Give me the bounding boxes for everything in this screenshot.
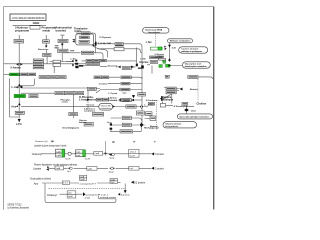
svg-text:2-Oxobutan: 2-Oxobutan [146, 99, 159, 102]
svg-text:Octanoyl: Octanoyl [32, 153, 42, 156]
svg-text:Vitamin B6: Vitamin B6 [101, 104, 112, 107]
svg-text:LplA: LplA [88, 167, 93, 170]
svg-text:oxobutano: oxobutano [84, 110, 96, 113]
svg-text:LipM: LipM [68, 196, 73, 198]
svg-text:LipM: LipM [56, 155, 61, 157]
svg-text:NAD: NAD [55, 47, 60, 50]
svg-text:Choline: Choline [197, 101, 207, 105]
svg-text:LipZ: LipZ [76, 155, 81, 157]
svg-text:LplA: LplA [56, 167, 61, 170]
svg-text:S-protein: S-protein [121, 193, 131, 196]
svg-text:1.8.1.4: 1.8.1.4 [130, 151, 137, 153]
svg-text:serine: serine [62, 102, 69, 104]
svg-text:Chol: Chol [191, 110, 196, 112]
svg-text:lipoyl: lipoyl [109, 171, 114, 173]
svg-text:Various (n): Various (n) [35, 140, 48, 143]
svg-text:Methane metabolism: Methane metabolism [170, 40, 191, 43]
svg-text:LipM: LipM [80, 179, 85, 181]
svg-text:transfer): transfer) [56, 28, 67, 32]
svg-text:L-Cystat: L-Cystat [109, 92, 118, 95]
svg-text:5-Amino: 5-Amino [11, 65, 22, 69]
svg-text:folate: folate [75, 29, 82, 33]
svg-text:L-Thr: L-Thr [145, 105, 154, 107]
svg-text:aldehyde: aldehyde [162, 97, 174, 101]
svg-text:5,10: 5,10 [61, 35, 65, 37]
svg-text:LipB: LipB [56, 151, 61, 153]
svg-text:propanoate: propanoate [15, 28, 30, 32]
svg-text:L-Asp: L-Asp [12, 85, 20, 89]
svg-text:(c) Kanehisa Laboratories: (c) Kanehisa Laboratories [8, 206, 30, 209]
svg-text:biosynthesis: biosynthesis [148, 31, 161, 34]
svg-text:GLYCINE, SERINE AND THREONINE: GLYCINE, SERINE AND THREONINE METABOLISM [12, 16, 45, 20]
svg-text:THF: THF [70, 50, 75, 52]
svg-text:+ 2 THF: + 2 THF [155, 57, 164, 59]
svg-text:lipoyl: lipoyl [110, 157, 115, 159]
svg-text:pathways in prokaryotes: pathways in prokaryotes [181, 50, 203, 53]
svg-text:3-oxobut: 3-oxobut [108, 99, 118, 102]
svg-text:amide: amide [85, 197, 91, 199]
svg-text:Dimethylglycine: Dimethylglycine [63, 127, 81, 130]
svg-text:dicarboxylate metabolism: dicarboxylate metabolism [185, 65, 207, 68]
svg-text:4-Trimethylammonio: 4-Trimethylammonio [174, 105, 195, 108]
svg-text:G protein: G protein [155, 167, 165, 170]
svg-text:Hse: Hse [12, 104, 17, 108]
svg-text:Sarcosine: Sarcosine [108, 64, 119, 67]
svg-text:L-Ser: L-Ser [71, 58, 77, 60]
svg-text:L-Ser: L-Ser [146, 42, 152, 44]
svg-text:Octanoylation (others): Octanoylation (others) [30, 177, 51, 180]
svg-text:Lipoate: Lipoate [33, 168, 42, 171]
svg-text:H protein: H protein [155, 153, 165, 156]
svg-text:Lipoylation of glycine cleavag: Lipoylation of glycine cleavage system H… [34, 144, 67, 148]
svg-text:octanoyl transfer: octanoyl transfer [100, 196, 116, 199]
svg-text:Glycerophospholipid metabolism: Glycerophospholipid metabolism [179, 115, 209, 118]
svg-text:Glycine: Glycine [139, 60, 149, 64]
svg-text:Betaine: Betaine [150, 125, 159, 128]
svg-text:metabolism: metabolism [101, 107, 112, 110]
svg-text:betaine: betaine [79, 121, 87, 124]
svg-text:E2 protein: E2 protein [134, 181, 146, 184]
svg-text:L-Thr: L-Thr [16, 124, 22, 126]
svg-text:Apo: Apo [34, 182, 39, 185]
svg-text:[ sub. ]: [ sub. ] [101, 194, 108, 196]
svg-text:L-homoserine: L-homoserine [79, 97, 97, 101]
svg-text:Sarcosine: Sarcosine [38, 49, 49, 51]
svg-text:Sarcosi: Sarcosi [86, 105, 94, 107]
svg-text:metab: metab [43, 28, 51, 32]
svg-text:Betaine: Betaine [190, 88, 199, 91]
svg-text:GcvH: GcvH [85, 158, 91, 160]
svg-text:Amin: Amin [107, 121, 112, 124]
svg-text:Creatine: Creatine [99, 83, 109, 86]
svg-text:5,10-Me-THF: 5,10-Me-THF [98, 43, 112, 45]
svg-text:GcvH: GcvH [65, 158, 71, 160]
svg-text:octanoyl-GcvH: octanoyl-GcvH [80, 182, 95, 185]
svg-text:biosynthesis: biosynthesis [165, 125, 179, 128]
svg-text:LipA: LipA [95, 152, 100, 155]
svg-text:Octanoyl: Octanoyl [47, 194, 57, 197]
svg-text:GcvH: GcvH [130, 155, 136, 157]
svg-text:P-Glycerate: P-Glycerate [100, 36, 112, 39]
